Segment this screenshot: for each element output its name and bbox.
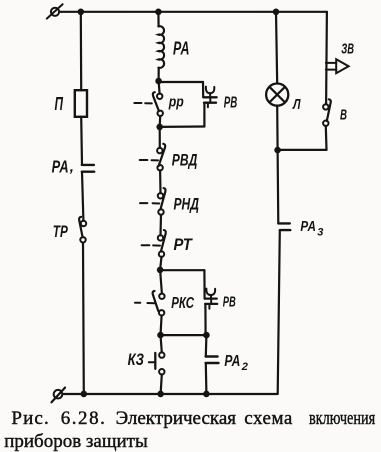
junction below PA xyxy=(155,78,162,85)
svg-text:РВД: РВД xyxy=(172,150,198,169)
wire PA3 upper xyxy=(277,150,280,223)
fuse P xyxy=(75,90,87,117)
wire middle rail top xyxy=(157,12,159,27)
relay contact RT xyxy=(142,230,166,257)
wire RT to junction xyxy=(160,257,161,270)
junction lamp-V xyxy=(274,147,281,154)
wire left rail fuse to PA1 xyxy=(80,117,83,165)
wire lamp branch upper xyxy=(276,12,277,84)
svg-text:РА: РА xyxy=(224,353,240,370)
relay contact RVD xyxy=(140,144,166,171)
terminal X1 top-left xyxy=(47,4,63,18)
wire RV2 branch right lower xyxy=(204,304,206,335)
svg-text:,: , xyxy=(69,159,74,176)
svg-text:РА: РА xyxy=(173,39,190,59)
junction PA2 top xyxy=(203,332,210,339)
svg-text:ТР: ТР xyxy=(53,223,69,241)
coil PA xyxy=(158,26,164,68)
wire RKS bottom bus xyxy=(161,334,207,336)
svg-text:РА: РА xyxy=(52,157,69,177)
wire PA2 branch upper xyxy=(205,335,208,356)
wire bottom bus xyxy=(63,393,278,395)
wire RVD to RND xyxy=(159,170,162,193)
svg-text:РНД: РНД xyxy=(174,196,200,214)
wire coil to junction xyxy=(158,68,160,81)
svg-text:П: П xyxy=(55,93,64,114)
relay contact RND xyxy=(140,188,166,215)
wire V to junction xyxy=(325,126,328,150)
wire RV1 branch right upper xyxy=(202,82,204,97)
wire RKS branch top xyxy=(160,269,204,271)
wire RR to junction xyxy=(159,116,162,127)
svg-text:рр: рр xyxy=(168,93,184,110)
junction top-middle xyxy=(155,9,162,16)
wire left rail PA1 to TR xyxy=(82,172,83,221)
svg-text:РВ: РВ xyxy=(223,294,236,311)
junction bottom-K3 xyxy=(157,391,164,398)
relay contact RKS xyxy=(135,291,165,315)
contact PA3 xyxy=(278,223,290,230)
wire junction to K3 xyxy=(161,335,162,352)
svg-text:КЗ: КЗ xyxy=(128,351,145,369)
wire left rail upper xyxy=(80,12,83,90)
relay contact RR xyxy=(134,92,163,116)
svg-text:РВ: РВ xyxy=(224,95,238,112)
button K3 xyxy=(149,352,165,374)
contact PA2 xyxy=(206,357,219,364)
wire RKS to junction xyxy=(161,316,162,336)
wire RV1 branch right lower xyxy=(203,103,205,126)
wire RV1 branch bottom xyxy=(160,125,205,128)
wire PA3 lower xyxy=(278,230,280,393)
relay RV2 time-delay contact xyxy=(205,289,218,309)
switch V xyxy=(323,99,331,126)
svg-text:3: 3 xyxy=(317,226,323,238)
lamp L xyxy=(266,84,288,106)
wire lamp to junction xyxy=(276,106,279,150)
wire junction to RKS xyxy=(160,270,162,294)
svg-text:2: 2 xyxy=(241,361,248,373)
terminal X2 bottom-left xyxy=(52,388,66,403)
junction bottom-left xyxy=(81,391,88,398)
junction RKS bottom-left xyxy=(157,332,164,339)
svg-text:В: В xyxy=(340,106,347,123)
svg-text:РТ: РТ xyxy=(174,236,194,254)
wire middle rail PA to RR xyxy=(159,81,160,94)
wire RV1 branch top xyxy=(159,81,203,83)
junction top-lamp xyxy=(273,9,280,16)
wire K3 to bottom xyxy=(161,375,162,394)
wire V branch horizontal xyxy=(278,149,327,151)
switch TR xyxy=(79,217,86,243)
bell ZV xyxy=(326,59,349,73)
wire junction to RVD xyxy=(159,127,161,148)
wire V branch vertical upper xyxy=(325,12,328,104)
wire RND to RT xyxy=(159,215,162,236)
svg-text:РА: РА xyxy=(300,218,316,235)
wire PA2 to bottom xyxy=(205,363,208,394)
junction below RR xyxy=(156,124,163,131)
relay RV1 time-delay contact xyxy=(203,87,216,108)
wire top bus xyxy=(60,11,327,13)
junction bottom-PA2 xyxy=(203,391,210,398)
contact PA1 xyxy=(82,165,94,172)
svg-text:ЗВ: ЗВ xyxy=(341,40,354,57)
svg-text:Л: Л xyxy=(292,97,301,113)
svg-text:РКС: РКС xyxy=(171,295,194,312)
wire left rail TR to bottom xyxy=(82,243,85,394)
wire RV2 branch right upper xyxy=(203,270,205,298)
junction top-left xyxy=(78,9,85,16)
junction below RT xyxy=(157,267,164,274)
